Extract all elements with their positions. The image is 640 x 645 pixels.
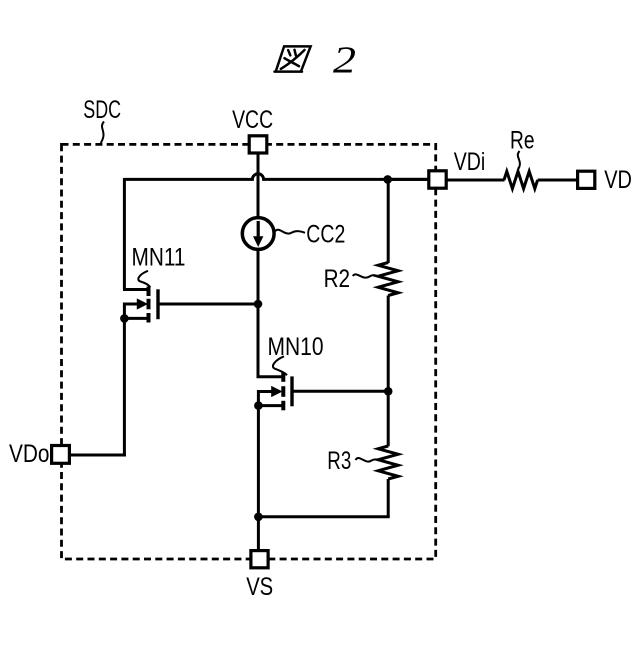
transistor MN10 bbox=[281, 372, 285, 410]
wire: VDo horizontal bbox=[70, 454, 126, 457]
svg-text:MN10: MN10 bbox=[268, 333, 324, 361]
svg-text:2: 2 bbox=[333, 40, 356, 82]
dashed box SDC boundary bbox=[62, 144, 436, 559]
wire: VCC vertical down to current source bbox=[257, 153, 260, 218]
svg-text:R3: R3 bbox=[327, 447, 351, 475]
terminal VCC bbox=[249, 136, 267, 153]
resistor Re bbox=[504, 171, 538, 188]
current source CC2 bbox=[242, 218, 274, 250]
terminal VD bbox=[578, 171, 595, 188]
terminal VS bbox=[251, 551, 268, 568]
leader CC2 bbox=[275, 230, 305, 234]
svg-text:VS: VS bbox=[246, 573, 273, 601]
terminal VDo bbox=[52, 446, 70, 464]
resistor R2 bbox=[378, 263, 398, 296]
wire: MN10 gate to node bbox=[292, 390, 388, 393]
junction dot MN11 gate node bbox=[254, 300, 263, 309]
svg-text:VCC: VCC bbox=[232, 106, 273, 134]
leader R2 bbox=[353, 274, 378, 277]
wire: MN11 drain vertical bbox=[123, 178, 126, 290]
junction dot MN11 source bbox=[120, 314, 129, 323]
svg-text:Re: Re bbox=[510, 126, 535, 154]
wire: MN10 source/body down to bottom rail bbox=[257, 390, 260, 517]
svg-text:VD: VD bbox=[604, 166, 632, 194]
svg-text:MN11: MN11 bbox=[132, 243, 186, 271]
junction dot bottom rail bbox=[254, 513, 263, 522]
wire: R2 bottom to R3 top bbox=[387, 296, 390, 447]
junction dot at rail/R2 bbox=[383, 175, 392, 184]
junction dot MN10 source bbox=[254, 401, 263, 410]
wire: Re to VD terminal bbox=[538, 179, 578, 182]
wire: bottom rail bbox=[258, 515, 389, 518]
wire: node to R2 top bbox=[387, 178, 390, 263]
leader Re bbox=[518, 151, 520, 170]
wire: current source output down to MN10 drain bbox=[257, 249, 260, 377]
wire: node to VDi terminal bbox=[388, 178, 430, 181]
svg-text:VDi: VDi bbox=[454, 148, 486, 176]
leader R3 bbox=[356, 458, 379, 462]
svg-text:R2: R2 bbox=[324, 265, 351, 293]
leader MN11 bbox=[138, 271, 150, 288]
transistor MN11 bbox=[147, 287, 151, 323]
leader MN10 bbox=[273, 356, 287, 375]
wire: to VS terminal bbox=[257, 517, 260, 551]
leader SDC bbox=[101, 122, 104, 144]
svg-text:CC2: CC2 bbox=[306, 221, 345, 249]
resistor R3 bbox=[378, 446, 398, 479]
junction dot R2/R3 node bbox=[384, 387, 393, 396]
wire: R3 bottom to bottom rail bbox=[387, 479, 390, 517]
terminal VDi bbox=[429, 171, 446, 188]
wire: MN11 source/body down to VDo wire bbox=[123, 303, 126, 457]
wire: horizontal rail from MN11 drain to VDi with hop over VCC line bbox=[124, 174, 428, 180]
figure title box (zu glyph) bbox=[275, 46, 311, 71]
svg-text:SDC: SDC bbox=[83, 96, 121, 124]
wire: MN11 gate to node bbox=[158, 303, 258, 306]
wire: VDi to Re bbox=[446, 179, 505, 182]
svg-text:VDo: VDo bbox=[9, 440, 50, 468]
